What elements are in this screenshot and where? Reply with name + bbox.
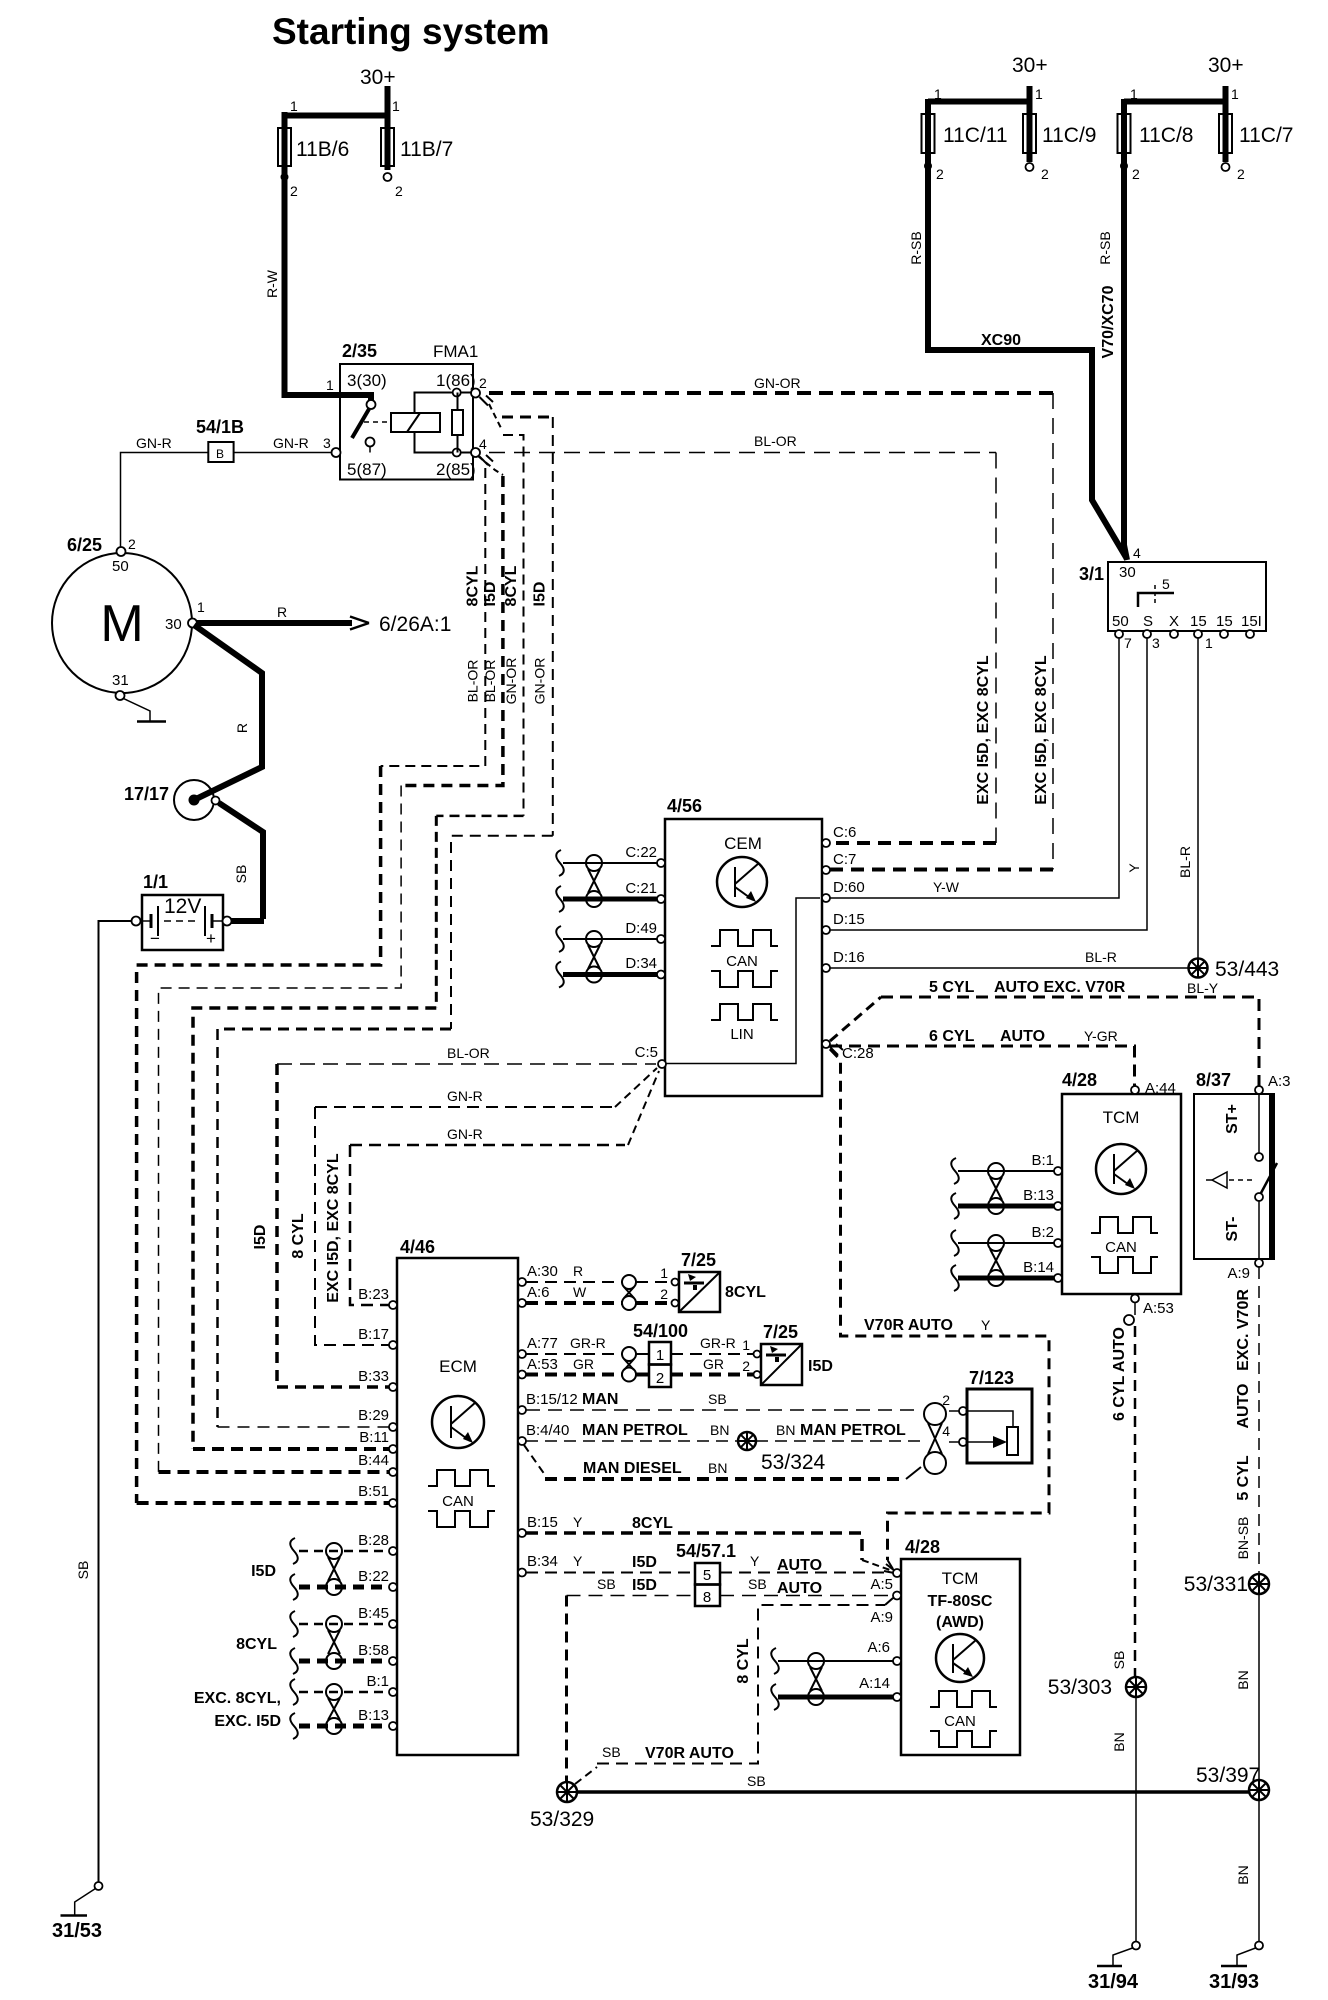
ECM right pins	[518, 1263, 578, 1577]
svg-text:2: 2	[1237, 166, 1245, 182]
svg-text:1: 1	[290, 98, 298, 114]
wire B:34 Y I5D AUTO (to A:5)	[526, 1553, 893, 1574]
wire A:14	[778, 1695, 893, 1700]
svg-text:2: 2	[1041, 166, 1049, 182]
svg-text:CAN: CAN	[1105, 1239, 1137, 1256]
wire BN (53/397 to 31/93)	[1235, 1800, 1259, 1941]
svg-text:A:30: A:30	[527, 1263, 558, 1280]
svg-text:Y-GR: Y-GR	[1084, 1028, 1118, 1044]
svg-text:C:22: C:22	[625, 844, 657, 861]
svg-text:MAN PETROL: MAN PETROL	[800, 1422, 906, 1439]
svg-text:ST+: ST+	[1224, 1104, 1241, 1134]
wire SB to ground 31/53	[75, 921, 132, 1882]
svg-text:CAN: CAN	[442, 1493, 474, 1510]
svg-text:BL-Y: BL-Y	[1187, 980, 1219, 996]
squiggle B:13	[951, 1193, 959, 1219]
wire BL-OR to C:5 and B:33	[252, 1045, 656, 1387]
svg-text:A:14: A:14	[859, 1675, 890, 1692]
ignition switch pins	[1112, 613, 1262, 651]
svg-text:AUTO EXC. V70R: AUTO EXC. V70R	[994, 979, 1126, 996]
svg-text:GN-R: GN-R	[447, 1088, 483, 1104]
wire SB MAN (B:15/12 to 7/123)	[526, 1391, 959, 1411]
wire B:15 Y 8CYL (to A:5)	[526, 1514, 890, 1570]
svg-text:CEM: CEM	[724, 834, 762, 853]
svg-text:R-W: R-W	[264, 269, 280, 298]
CEM right pins	[822, 824, 874, 1062]
svg-text:BN: BN	[1111, 1732, 1127, 1751]
svg-text:1: 1	[1231, 86, 1239, 102]
svg-text:GN-R: GN-R	[447, 1126, 483, 1142]
svg-text:A:53: A:53	[1143, 1300, 1174, 1317]
svg-text:I5D: I5D	[252, 1225, 269, 1250]
svg-text:6/26A:1: 6/26A:1	[379, 613, 451, 636]
relay coil	[391, 389, 471, 457]
svg-text:D:49: D:49	[625, 920, 657, 937]
svg-text:1: 1	[660, 1265, 668, 1281]
wire B:2	[958, 1242, 1054, 1244]
svg-text:2: 2	[479, 375, 487, 391]
svg-text:XC90: XC90	[981, 332, 1021, 349]
svg-text:30: 30	[165, 616, 182, 633]
svg-text:Starting system: Starting system	[272, 11, 550, 52]
wire BN MAN PETROL (B:4/40 to 7/123)	[526, 1422, 959, 1442]
svg-text:GN-R: GN-R	[273, 435, 309, 451]
wire B:1	[958, 1170, 1054, 1172]
wire 5 CYL AUTO EXC. V70R (C:28 to A:3)	[830, 979, 1259, 1086]
svg-text:7/25: 7/25	[681, 1250, 716, 1270]
svg-text:(AWD): (AWD)	[936, 1614, 984, 1631]
svg-text:53/443: 53/443	[1215, 958, 1279, 981]
svg-text:BN: BN	[1235, 1670, 1251, 1689]
svg-text:15: 15	[1190, 613, 1207, 630]
fuse 11B/7	[360, 66, 453, 199]
svg-text:1: 1	[656, 1347, 664, 1364]
fuse 11C/11	[922, 86, 1030, 182]
svg-text:53/397: 53/397	[1196, 1764, 1260, 1787]
squiggle B:14	[951, 1265, 959, 1291]
connector 54/100	[633, 1321, 688, 1387]
svg-text:1: 1	[934, 86, 942, 102]
svg-text:B:28: B:28	[358, 1532, 389, 1549]
wire Y (D:15 to pin S)	[826, 638, 1147, 930]
svg-text:2: 2	[395, 183, 403, 199]
svg-text:V70R AUTO: V70R AUTO	[645, 1745, 734, 1762]
svg-text:C:5: C:5	[635, 1044, 658, 1061]
svg-text:BL-R: BL-R	[1085, 949, 1117, 965]
svg-text:LIN: LIN	[730, 1026, 753, 1043]
svg-text:5 CYL: 5 CYL	[1235, 1455, 1252, 1501]
svg-text:FMA1: FMA1	[433, 342, 478, 361]
svg-text:11B/6: 11B/6	[296, 138, 349, 161]
svg-text:31/53: 31/53	[52, 1920, 102, 1942]
connector 54/1B	[196, 417, 244, 462]
squiggle B:2	[951, 1230, 959, 1256]
big twisted symbol at 7/123	[924, 1403, 946, 1474]
wire BN MAN DIESEL	[524, 1445, 921, 1479]
svg-text:R-SB: R-SB	[908, 231, 924, 264]
svg-text:6 CYL AUTO: 6 CYL AUTO	[1111, 1327, 1128, 1421]
svg-text:B:14: B:14	[1023, 1259, 1054, 1276]
svg-text:7/25: 7/25	[763, 1322, 798, 1342]
svg-text:I5D: I5D	[632, 1554, 657, 1571]
ECM lower left pins (twisted pairs)	[358, 1532, 397, 1730]
TCM transistor symbol	[1096, 1144, 1146, 1194]
svg-text:1: 1	[1130, 86, 1138, 102]
svg-text:Y: Y	[981, 1317, 991, 1333]
svg-text:5(87): 5(87)	[347, 460, 387, 479]
svg-text:SB: SB	[708, 1391, 727, 1407]
svg-text:R: R	[277, 604, 287, 620]
svg-text:4/46: 4/46	[400, 1237, 435, 1257]
wire BL-OR 8CYL (pin4 to B:51)	[137, 468, 486, 1503]
svg-text:4: 4	[1133, 545, 1141, 561]
svg-text:2: 2	[660, 1286, 668, 1302]
wire 6 CYL AUTO (A:53 to 53/303)	[1111, 1303, 1135, 1677]
fuse 11C/7	[1208, 54, 1293, 182]
TCM AWD pins	[859, 1569, 901, 1701]
svg-text:V70R AUTO: V70R AUTO	[864, 1317, 953, 1334]
svg-text:D:60: D:60	[833, 879, 865, 896]
wire R-SB XC90	[908, 168, 1127, 559]
svg-text:B:44: B:44	[358, 1452, 389, 1469]
svg-text:GR: GR	[703, 1356, 724, 1372]
svg-text:12V: 12V	[164, 895, 201, 918]
wire R-W	[264, 178, 371, 401]
svg-text:SB: SB	[75, 1561, 91, 1580]
svg-text:A:6: A:6	[527, 1284, 550, 1301]
svg-text:A:9: A:9	[1227, 1265, 1250, 1282]
connector 54/57.1	[676, 1541, 736, 1606]
squiggle D:34	[556, 962, 564, 988]
svg-text:D:15: D:15	[833, 911, 865, 928]
TCM 4/28 TF-80SC (AWD)	[901, 1537, 1020, 1755]
wire to C:22	[563, 862, 657, 864]
TCM pin A:53	[1131, 1295, 1174, 1318]
wire SB V70R AUTO (53/329 to A:9)	[575, 1598, 893, 1784]
svg-text:50: 50	[112, 558, 129, 575]
svg-text:53/303: 53/303	[1048, 1676, 1112, 1699]
ignition switch 3/1	[1079, 545, 1266, 631]
ground 31/53	[52, 1882, 103, 1942]
fuse 11C/8	[1118, 86, 1226, 182]
svg-text:31/93: 31/93	[1209, 1971, 1259, 1993]
junction 53/329	[530, 1782, 594, 1831]
junction 53/397	[1196, 1764, 1269, 1800]
svg-text:B:23: B:23	[358, 1286, 389, 1303]
CEM left pins C:22 C:21 D:49 D:34	[625, 844, 665, 979]
svg-text:17/17: 17/17	[124, 784, 169, 804]
wire GN-R to C:5 and B:23	[325, 1071, 659, 1305]
svg-text:6/25: 6/25	[67, 535, 102, 555]
junction 53/303	[1048, 1676, 1146, 1699]
relay resistor	[452, 393, 463, 453]
svg-text:BN: BN	[1235, 1865, 1251, 1884]
wire B:13	[958, 1204, 1054, 1209]
svg-text:4: 4	[479, 436, 487, 452]
svg-text:3(30): 3(30)	[347, 371, 387, 390]
CEM internal wire C:5 to D:60	[666, 898, 820, 1064]
svg-text:8 CYL: 8 CYL	[290, 1213, 307, 1259]
svg-text:1: 1	[1205, 635, 1213, 651]
svg-text:SB: SB	[602, 1744, 621, 1760]
motor ground	[124, 699, 167, 722]
svg-text:C:21: C:21	[625, 880, 657, 897]
svg-text:B:22: B:22	[358, 1568, 389, 1585]
svg-text:1: 1	[742, 1337, 750, 1353]
svg-text:B:13: B:13	[1023, 1187, 1054, 1204]
wire BN (53/331 to 53/397)	[1235, 1594, 1259, 1780]
svg-text:SB: SB	[233, 865, 249, 884]
svg-text:R-SB: R-SB	[1097, 231, 1113, 264]
svg-text:GR-R: GR-R	[570, 1335, 606, 1351]
svg-text:Y: Y	[750, 1553, 760, 1569]
svg-text:2: 2	[742, 1358, 750, 1374]
wire GN-OR 8CYL (pin2 to B:11)	[193, 435, 524, 1449]
svg-text:GN-OR: GN-OR	[532, 658, 548, 705]
arrowhead at A:5	[884, 1564, 895, 1573]
svg-text:A:44: A:44	[1145, 1080, 1176, 1097]
svg-text:TF-80SC: TF-80SC	[928, 1593, 993, 1610]
svg-text:BL-OR: BL-OR	[754, 433, 797, 449]
svg-text:SB: SB	[748, 1576, 767, 1592]
wire to D:34	[563, 972, 657, 977]
svg-text:AUTO: AUTO	[777, 1580, 822, 1597]
svg-text:W: W	[573, 1284, 587, 1300]
svg-text:−: −	[150, 929, 160, 948]
svg-text:GN-R: GN-R	[136, 435, 172, 451]
svg-text:X: X	[1169, 613, 1179, 630]
TCM AWD transistor symbol	[936, 1634, 984, 1682]
svg-text:S: S	[1143, 613, 1153, 630]
svg-text:GN-OR: GN-OR	[754, 375, 801, 391]
svg-text:11C/7: 11C/7	[1239, 124, 1293, 147]
svg-text:I5D: I5D	[251, 1563, 276, 1580]
svg-text:EXC I5D, EXC 8CYL: EXC I5D, EXC 8CYL	[975, 655, 992, 805]
svg-text:2: 2	[656, 1370, 664, 1387]
svg-text:AUTO: AUTO	[777, 1557, 822, 1574]
twisted pair symbol A:77/A:53	[622, 1347, 636, 1382]
svg-text:53/324: 53/324	[761, 1451, 826, 1474]
svg-text:SB: SB	[1111, 1651, 1127, 1670]
wire to D:49	[563, 938, 657, 940]
svg-text:B:2: B:2	[1031, 1224, 1054, 1241]
svg-text:11C/8: 11C/8	[1139, 124, 1193, 147]
svg-text:8CYL: 8CYL	[503, 565, 520, 606]
connector 17/17	[124, 780, 220, 820]
svg-text:B:29: B:29	[358, 1407, 389, 1424]
svg-text:11C/11: 11C/11	[943, 124, 1008, 147]
wire SB to 53/329	[565, 1596, 568, 1782]
svg-text:B:4/40: B:4/40	[526, 1422, 569, 1439]
svg-text:C:28: C:28	[842, 1045, 874, 1062]
svg-text:4/28: 4/28	[905, 1537, 940, 1557]
svg-text:CAN: CAN	[726, 953, 758, 970]
svg-text:5: 5	[703, 1567, 711, 1584]
wire GR-R (A:77 to 54/100)	[526, 1335, 753, 1354]
svg-text:B:1: B:1	[1031, 1152, 1054, 1169]
svg-text:CAN: CAN	[944, 1713, 976, 1730]
svg-text:4/56: 4/56	[667, 796, 702, 816]
battery 1/1	[132, 872, 232, 950]
wire pair EXC B:1/B:13	[194, 1679, 389, 1739]
svg-text:SB: SB	[597, 1576, 616, 1592]
CEM 4/56	[665, 796, 822, 1096]
svg-text:53/331: 53/331	[1184, 1573, 1248, 1596]
svg-text:8/37: 8/37	[1196, 1070, 1231, 1090]
svg-text:A:9: A:9	[870, 1609, 893, 1626]
ECM transistor symbol	[432, 1396, 484, 1448]
svg-text:3: 3	[323, 435, 331, 451]
TCM 4/28	[1062, 1070, 1181, 1294]
svg-text:BN-SB: BN-SB	[1235, 1517, 1251, 1560]
wire GN-OR I5D (pin2 to B:29)	[218, 417, 553, 1427]
wire GN-R to C:5 and B:17	[290, 1068, 657, 1345]
svg-text:BN: BN	[708, 1460, 727, 1476]
wire GN-R	[121, 435, 332, 547]
wire R to 17/17	[194, 625, 262, 799]
svg-text:A:53: A:53	[527, 1356, 558, 1373]
svg-text:AUTO: AUTO	[1000, 1028, 1045, 1045]
svg-text:+: +	[206, 929, 216, 948]
svg-text:MAN DIESEL: MAN DIESEL	[583, 1460, 682, 1477]
svg-text:1: 1	[326, 377, 334, 393]
wire pair 8CYL B:45/B:58	[236, 1611, 389, 1674]
wire BN (53/303 to 31/94)	[1111, 1697, 1136, 1941]
wire pair I5D B:28/B:22	[251, 1538, 389, 1600]
twisted pair symbol B:2/B:14	[988, 1235, 1004, 1286]
svg-text:15I: 15I	[1241, 613, 1262, 630]
component 7/123	[942, 1368, 1032, 1463]
CEM CAN symbol	[711, 930, 778, 987]
ground 31/94	[1088, 1942, 1140, 1994]
svg-text:A:5: A:5	[870, 1576, 893, 1593]
svg-text:2/35: 2/35	[342, 341, 377, 361]
component 7/25 I5D	[754, 1322, 833, 1385]
wire to C:21	[563, 897, 657, 902]
svg-text:M: M	[100, 595, 143, 653]
svg-text:I5D: I5D	[632, 1577, 657, 1594]
starter inhibitor switch 8/37	[1194, 1070, 1291, 1282]
svg-text:11C/9: 11C/9	[1042, 124, 1096, 147]
svg-text:8CYL: 8CYL	[725, 1284, 766, 1301]
relay switch contact	[352, 400, 390, 453]
svg-text:6 CYL: 6 CYL	[929, 1028, 975, 1045]
C:28 leader arrows	[830, 1044, 843, 1055]
svg-text:B:51: B:51	[358, 1483, 389, 1500]
svg-text:B:11: B:11	[359, 1429, 389, 1446]
junction 53/331	[1184, 1573, 1269, 1596]
svg-text:A:3: A:3	[1268, 1073, 1291, 1090]
svg-text:D:16: D:16	[833, 949, 865, 966]
CEM transistor symbol	[717, 857, 767, 907]
svg-text:2: 2	[128, 536, 136, 552]
svg-text:54/1B: 54/1B	[196, 417, 244, 437]
svg-text:D:34: D:34	[625, 955, 657, 972]
twisted pair symbol C:22/C:21	[586, 855, 602, 907]
wire B:14	[958, 1276, 1054, 1281]
junction 53/324	[738, 1432, 826, 1474]
TCM CAN symbol	[1091, 1217, 1158, 1273]
TCM pin A:44	[1131, 1080, 1176, 1097]
squiggle A:14	[771, 1684, 779, 1710]
wire 6 CYL AUTO Y-GR (C:28 to A:44)	[830, 1028, 1135, 1086]
relay pin4 leader arrows	[478, 455, 503, 475]
squiggle B:1	[951, 1158, 959, 1184]
svg-text:TCM: TCM	[1103, 1108, 1140, 1127]
wire BL-OR relay pin4 to C:6	[489, 433, 996, 843]
squiggle C:21	[556, 886, 564, 912]
lamp 53/443	[1187, 958, 1279, 996]
component 7/25 8CYL	[672, 1250, 767, 1312]
wire GR (A:53 to 54/100)	[526, 1356, 753, 1375]
svg-text:BL-OR: BL-OR	[465, 660, 481, 703]
svg-text:B:34: B:34	[527, 1553, 558, 1570]
svg-text:Y-W: Y-W	[933, 879, 960, 895]
svg-text:EXC I5D, EXC 8CYL: EXC I5D, EXC 8CYL	[325, 1153, 342, 1303]
fuse 11C/9	[1012, 54, 1096, 182]
svg-text:2: 2	[936, 166, 944, 182]
svg-text:50: 50	[1112, 613, 1129, 630]
wire R-SB V70/XC70	[1097, 168, 1127, 560]
squiggle A:6	[771, 1648, 779, 1674]
relay 2/35 FMA1	[323, 341, 487, 480]
svg-text:GR: GR	[573, 1356, 594, 1372]
starter motor 6/25	[52, 535, 205, 700]
wire R (A:30 to 7/25)	[526, 1263, 671, 1282]
svg-text:I5D: I5D	[482, 582, 499, 607]
svg-text:BL-OR: BL-OR	[447, 1045, 490, 1061]
svg-text:Y: Y	[573, 1514, 583, 1530]
svg-text:B:15: B:15	[527, 1514, 558, 1531]
svg-text:30+: 30+	[1208, 54, 1244, 77]
relay pin 2	[471, 389, 480, 398]
svg-text:1: 1	[1035, 86, 1043, 102]
svg-text:8CYL: 8CYL	[632, 1515, 673, 1532]
CEM LIN symbol	[711, 1004, 778, 1043]
svg-text:B:13: B:13	[358, 1707, 389, 1724]
svg-text:ECM: ECM	[439, 1357, 477, 1376]
svg-text:A:77: A:77	[527, 1335, 558, 1352]
ignition key symbol	[1138, 576, 1174, 607]
svg-text:B:58: B:58	[358, 1642, 389, 1659]
svg-text:EXC. 8CYL,: EXC. 8CYL,	[194, 1690, 281, 1707]
svg-text:EXC. I5D: EXC. I5D	[214, 1713, 281, 1730]
wire V70R AUTO Y (C:28 to A:5)	[830, 1049, 1049, 1569]
svg-text:1: 1	[197, 599, 205, 615]
wire BN-SB EXC V70R (A:9 to 53/331)	[1235, 1267, 1259, 1574]
squiggle D:49	[556, 926, 564, 952]
svg-text:3/1: 3/1	[1079, 564, 1104, 584]
svg-text:30+: 30+	[1012, 54, 1048, 77]
wire Y-W (D:60 to pin 50)	[826, 638, 1119, 898]
fuse 11B/6	[278, 98, 388, 199]
wire GN-OR relay pin2 to C:7	[489, 375, 1053, 870]
svg-text:31: 31	[112, 672, 129, 689]
ECM CAN symbol	[428, 1470, 495, 1527]
svg-text:BL-OR: BL-OR	[482, 660, 498, 703]
svg-text:54/57.1: 54/57.1	[676, 1541, 736, 1561]
ground 31/93	[1209, 1942, 1263, 1994]
svg-text:8CYL: 8CYL	[236, 1636, 277, 1653]
relay pin 3	[332, 448, 341, 457]
svg-text:B: B	[216, 447, 224, 461]
twisted pair symbol A:6/A:14	[808, 1653, 824, 1705]
svg-text:7: 7	[1124, 635, 1132, 651]
svg-text:4/28: 4/28	[1062, 1070, 1097, 1090]
svg-text:B:1: B:1	[366, 1673, 389, 1690]
svg-text:BL-R: BL-R	[1177, 846, 1193, 878]
svg-text:30: 30	[1119, 564, 1136, 581]
